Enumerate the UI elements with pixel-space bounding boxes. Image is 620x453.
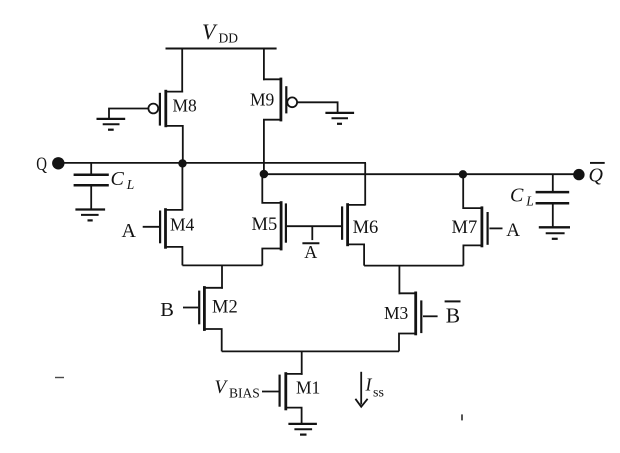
svg-text:M8: M8 [173,96,198,116]
svg-text:C: C [111,168,125,190]
wire stray tick [461,414,463,420]
ground (M9 gate) [325,113,354,124]
svg-text:ss: ss [373,386,384,401]
wire tail3 to M1 drain [301,351,303,374]
node Qbar label [589,163,605,187]
node Q terminal [52,157,64,169]
svg-text:A: A [506,220,520,241]
svg-text:B: B [446,304,460,328]
current Iss arrow [355,372,367,407]
wire M6/M7 source tail [364,265,463,267]
svg-text:I: I [365,375,373,395]
ground (left CL) [75,210,105,221]
wire M2/M3 source tail [222,350,399,352]
transistor M4 [143,164,195,266]
ground (right CL) [539,227,570,239]
transistor M9 [250,78,297,171]
wire M8 gate to ground [109,109,148,119]
svg-text:L: L [126,177,135,192]
wire VDD rail [166,48,277,50]
wire tail1 to M2 drain [221,265,223,288]
capacitor CL (right) [510,174,569,226]
svg-text:A: A [304,242,317,262]
wire M4/M5 source tail [182,264,262,266]
svg-text:M3: M3 [384,303,409,323]
wire VDD to M9 source [263,48,265,81]
wire Q line to M6 drain [364,163,366,206]
wire VDD to M8 source [181,48,183,93]
transistor M1 [262,372,320,423]
svg-text:M4: M4 [170,214,195,234]
capacitor CL (left) [74,163,135,209]
svg-text:BIAS: BIAS [229,386,260,401]
wire Abar gate (M5 to M6) [287,225,341,227]
wire Qbar output line [264,173,575,175]
wire tail2 to M3 drain [398,266,400,295]
transistor M5 [252,171,286,265]
transistor M6 [342,203,378,265]
wire Q output line [63,162,366,164]
svg-text:Q: Q [36,153,47,174]
svg-text:DD: DD [219,31,239,46]
ground (M1 source) [288,424,317,435]
svg-text:B: B [160,299,174,321]
svg-text:Q: Q [589,165,604,187]
node Bbar label [445,301,461,327]
svg-text:M5: M5 [252,215,278,235]
wire M9 gate to ground [297,102,338,112]
node Q label [36,153,47,174]
svg-text:M6: M6 [353,218,379,238]
node VDD label [202,19,238,46]
node Abar input [302,226,319,262]
current Iss label [365,375,384,401]
svg-text:M1: M1 [296,377,320,397]
transistor M7 [452,174,503,265]
svg-text:L: L [525,194,534,209]
wire stray mark [55,377,64,379]
svg-text:A: A [122,220,137,242]
svg-text:M2: M2 [212,298,238,318]
svg-text:C: C [510,185,524,207]
ground (M8 gate) [97,119,126,130]
transistor M8 [148,90,197,164]
svg-text:M7: M7 [452,218,478,238]
node VBIAS label [215,377,260,401]
junction M9/M5 drains [260,170,269,179]
junction M8/M4 drains [178,159,186,167]
svg-text:M9: M9 [250,89,275,109]
transistor M2 [183,286,238,351]
junction M7 drain [459,170,467,178]
transistor M3 [384,292,438,352]
node Qbar terminal [573,169,584,180]
